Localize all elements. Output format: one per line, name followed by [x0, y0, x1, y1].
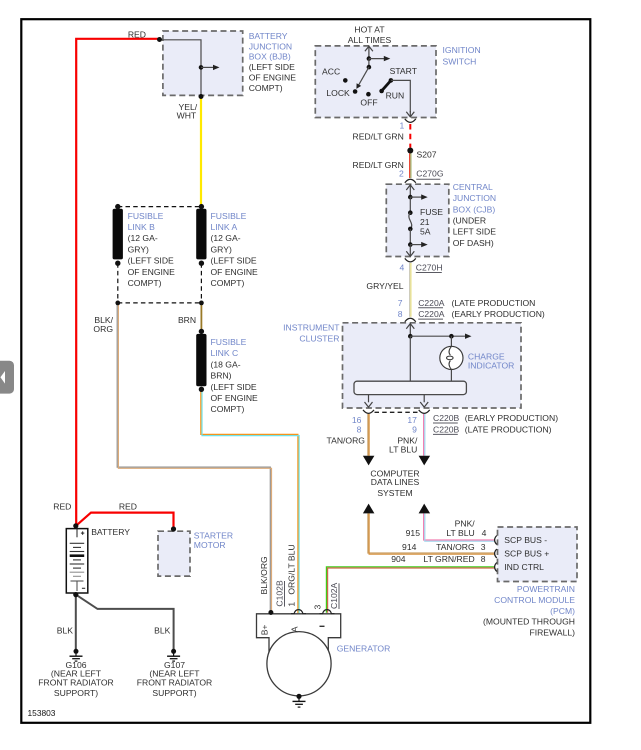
svg-text:OF ENGINE: OF ENGINE — [211, 393, 259, 403]
svg-text:CLUSTER: CLUSTER — [299, 334, 339, 344]
svg-text:OF ENGINE: OF ENGINE — [211, 267, 259, 277]
svg-text:3: 3 — [313, 605, 323, 610]
svg-text:(18 GA-: (18 GA- — [211, 359, 241, 369]
svg-text:BOX (BJB): BOX (BJB) — [249, 52, 291, 62]
svg-text:LINK C: LINK C — [211, 348, 239, 358]
svg-text:(LEFT SIDE: (LEFT SIDE — [128, 256, 174, 266]
svg-text:CENTRAL: CENTRAL — [453, 182, 493, 192]
svg-text:915: 915 — [406, 528, 421, 538]
svg-text:914: 914 — [402, 542, 417, 552]
svg-text:FIREWALL): FIREWALL) — [529, 628, 575, 638]
svg-text:IND CTRL: IND CTRL — [504, 562, 544, 572]
svg-text:BRN): BRN) — [211, 371, 232, 381]
svg-text:TAN/ORG: TAN/ORG — [436, 542, 475, 552]
svg-text:C220B: C220B — [433, 424, 460, 434]
svg-text:4: 4 — [482, 528, 487, 538]
svg-text:IGNITION: IGNITION — [443, 45, 481, 55]
svg-text:BLK: BLK — [57, 626, 74, 636]
svg-text:153803: 153803 — [28, 708, 56, 718]
svg-text:C220A: C220A — [418, 298, 445, 308]
svg-text:(EARLY PRODUCTION): (EARLY PRODUCTION) — [452, 309, 545, 319]
svg-text:LINK A: LINK A — [211, 222, 238, 232]
svg-text:16: 16 — [352, 415, 362, 425]
svg-text:1 ORG/LT BLU: 1 ORG/LT BLU — [287, 544, 297, 606]
svg-text:7: 7 — [398, 298, 403, 308]
svg-text:GRY): GRY) — [128, 244, 149, 254]
svg-text:RED/LT GRN: RED/LT GRN — [353, 132, 404, 142]
svg-text:RED: RED — [119, 501, 137, 511]
svg-text:C220A: C220A — [418, 309, 445, 319]
svg-text:OF ENGINE: OF ENGINE — [128, 267, 176, 277]
svg-text:LT BLU: LT BLU — [446, 528, 474, 538]
svg-text:904: 904 — [391, 554, 406, 564]
svg-text:FUSIBLE: FUSIBLE — [211, 211, 247, 221]
svg-text:SYSTEM: SYSTEM — [377, 488, 412, 498]
svg-text:(LEFT SIDE: (LEFT SIDE — [211, 382, 257, 392]
svg-text:5A: 5A — [420, 227, 431, 237]
svg-text:COMPT): COMPT) — [249, 83, 283, 93]
svg-text:FRONT RADIATOR: FRONT RADIATOR — [137, 678, 212, 688]
svg-text:(LEFT SIDE: (LEFT SIDE — [249, 62, 295, 72]
svg-text:COMPT): COMPT) — [211, 404, 245, 414]
svg-text:C102B: C102B — [275, 580, 285, 607]
svg-text:BATTERY: BATTERY — [249, 31, 288, 41]
svg-text:(MOUNTED THROUGH: (MOUNTED THROUGH — [483, 617, 575, 627]
svg-text:GENERATOR: GENERATOR — [337, 643, 391, 653]
svg-text:BLK/ORG: BLK/ORG — [259, 556, 269, 595]
svg-text:RUN: RUN — [386, 91, 405, 101]
svg-text:ALL TIMES: ALL TIMES — [348, 35, 392, 45]
svg-text:COMPT): COMPT) — [211, 278, 245, 288]
svg-text:LINK B: LINK B — [128, 222, 155, 232]
svg-text:(LATE PRODUCTION): (LATE PRODUCTION) — [465, 424, 552, 434]
svg-text:C102A: C102A — [329, 582, 339, 609]
svg-text:SCP BUS +: SCP BUS + — [504, 549, 549, 559]
svg-text:FUSIBLE: FUSIBLE — [128, 211, 164, 221]
svg-text:ORG: ORG — [93, 324, 113, 334]
svg-text:OF ENGINE: OF ENGINE — [249, 73, 297, 83]
svg-text:21: 21 — [420, 217, 430, 227]
svg-text:SUPPORT): SUPPORT) — [54, 688, 98, 698]
svg-text:STARTER: STARTER — [194, 530, 233, 540]
svg-text:SCP BUS -: SCP BUS - — [504, 535, 547, 545]
svg-text:4: 4 — [400, 263, 405, 273]
svg-text:(EARLY PRODUCTION): (EARLY PRODUCTION) — [465, 413, 558, 423]
svg-text:RED: RED — [53, 501, 71, 511]
svg-text:SUPPORT): SUPPORT) — [152, 688, 196, 698]
svg-text:LT GRN/RED: LT GRN/RED — [423, 554, 474, 564]
svg-text:TAN/ORG: TAN/ORG — [326, 436, 365, 446]
svg-text:S207: S207 — [417, 149, 437, 159]
svg-text:C220B: C220B — [433, 413, 460, 423]
svg-text:MOTOR: MOTOR — [194, 540, 226, 550]
svg-text:HOT AT: HOT AT — [354, 25, 385, 35]
svg-text:(LEFT SIDE: (LEFT SIDE — [211, 256, 257, 266]
svg-text:COMPT): COMPT) — [128, 278, 162, 288]
svg-text:START: START — [390, 66, 418, 76]
svg-text:OF DASH): OF DASH) — [453, 238, 494, 248]
svg-text:FRONT RADIATOR: FRONT RADIATOR — [38, 678, 113, 688]
svg-text:8: 8 — [357, 425, 362, 435]
svg-text:WHT: WHT — [177, 111, 197, 121]
svg-text:DATA LINES: DATA LINES — [371, 477, 420, 487]
svg-text:8: 8 — [398, 309, 403, 319]
svg-text:(12 GA-: (12 GA- — [128, 233, 158, 243]
svg-text:C270G: C270G — [416, 169, 444, 179]
svg-text:SWITCH: SWITCH — [443, 56, 477, 66]
svg-text:BATTERY: BATTERY — [91, 527, 130, 537]
svg-text:FUSIBLE: FUSIBLE — [211, 337, 247, 347]
svg-text:FUSE: FUSE — [420, 207, 443, 217]
svg-text:INSTRUMENT: INSTRUMENT — [283, 322, 340, 332]
svg-text:(UNDER: (UNDER — [453, 216, 486, 226]
svg-text:LOCK: LOCK — [326, 88, 350, 98]
svg-text:POWERTRAIN: POWERTRAIN — [517, 584, 575, 594]
svg-text:B+: B+ — [259, 625, 269, 636]
svg-text:3: 3 — [481, 542, 486, 552]
svg-text:(PCM): (PCM) — [550, 606, 575, 616]
svg-text:GRY/YEL: GRY/YEL — [366, 281, 403, 291]
svg-text:GRY): GRY) — [211, 244, 232, 254]
svg-text:LT BLU: LT BLU — [389, 445, 417, 455]
svg-text:BLK: BLK — [154, 626, 171, 636]
svg-text:ACC: ACC — [322, 67, 340, 77]
svg-text:A: A — [289, 626, 299, 632]
svg-text:LEFT SIDE: LEFT SIDE — [453, 227, 497, 237]
svg-text:RED/LT GRN: RED/LT GRN — [353, 160, 404, 170]
svg-text:(12 GA-: (12 GA- — [211, 233, 241, 243]
svg-text:2: 2 — [399, 169, 404, 179]
svg-text:RED: RED — [128, 29, 146, 39]
svg-text:(LATE PRODUCTION: (LATE PRODUCTION — [452, 298, 536, 308]
svg-text:9: 9 — [412, 425, 417, 435]
svg-text:JUNCTION: JUNCTION — [249, 41, 292, 51]
svg-text:CONTROL MODULE: CONTROL MODULE — [494, 595, 575, 605]
svg-text:BOX (CJB): BOX (CJB) — [453, 204, 496, 214]
svg-text:8: 8 — [481, 554, 486, 564]
svg-text:17: 17 — [407, 415, 417, 425]
svg-text:OFF: OFF — [360, 98, 377, 108]
svg-text:JUNCTION: JUNCTION — [453, 193, 496, 203]
svg-text:INDICATOR: INDICATOR — [468, 361, 514, 371]
svg-text:BRN: BRN — [178, 315, 196, 325]
svg-text:1: 1 — [400, 121, 405, 131]
svg-text:C270H: C270H — [416, 263, 443, 273]
